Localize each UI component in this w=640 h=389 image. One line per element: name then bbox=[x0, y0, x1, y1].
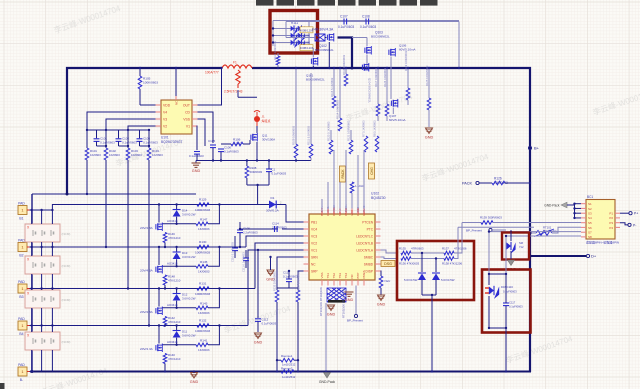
pin U102 TS4 (bottom) bbox=[344, 273, 348, 286]
thermistor RT101 (pack) bbox=[534, 229, 554, 237]
wire BP_Present bbox=[492, 229, 506, 231]
wire C113 top bbox=[288, 271, 290, 279]
ground (C112) bbox=[254, 333, 263, 344]
pin U102 PB1 bbox=[304, 220, 318, 224]
junction tap 42,247 bbox=[40, 246, 42, 248]
svg-text:47R/0603: 47R/0603 bbox=[411, 247, 424, 251]
resistor Rsense2 bbox=[281, 370, 294, 374]
label C114 bbox=[272, 222, 287, 230]
wire pad B- bbox=[30, 371, 35, 373]
svg-text:(NCM): (NCM) bbox=[62, 264, 71, 268]
svg-text:3.6V/0.2W: 3.6V/0.2W bbox=[182, 255, 196, 259]
ground (balancer bottom) bbox=[190, 373, 199, 384]
wire cell G3 bottom x42 bbox=[41, 308, 43, 326]
svg-text:D1: D1 bbox=[271, 196, 275, 200]
junction F4B bus bbox=[351, 67, 354, 70]
svg-text:R147: R147 bbox=[200, 218, 208, 222]
wire TVS row 3 bbox=[273, 42, 309, 44]
junction D+ branch bbox=[528, 254, 531, 257]
svg-text:F4B-30V/4.3A: F4B-30V/4.3A bbox=[312, 28, 334, 32]
junction R105 bus bbox=[139, 67, 141, 69]
pin U102 TS1 (bottom) bbox=[326, 273, 330, 286]
wire C103 bottom link bbox=[140, 145, 150, 147]
svg-text:AO3415: AO3415 bbox=[167, 303, 178, 307]
node B+ bbox=[528, 146, 531, 149]
wire D12 top bbox=[176, 289, 178, 294]
svg-text:S7: S7 bbox=[588, 231, 592, 235]
highlight box (ESD diode) bbox=[502, 233, 529, 260]
pin U102 LEDCNTLA bbox=[356, 248, 380, 252]
svg-text:3.6V/0.2W: 3.6V/0.2W bbox=[182, 213, 196, 217]
svg-text:P1: P1 bbox=[609, 212, 613, 216]
wire D14 top bbox=[176, 205, 178, 210]
wire U102 top pin NC bbox=[339, 182, 341, 209]
svg-text:1K/0603: 1K/0603 bbox=[198, 227, 210, 231]
junction RC rail x106 bbox=[105, 129, 107, 131]
terminal BP_Present bbox=[489, 228, 492, 231]
svg-text:VC4: VC4 bbox=[311, 227, 317, 231]
svg-text:Rsense2: Rsense2 bbox=[281, 366, 293, 370]
wire cell G4 top x42 bbox=[41, 326, 43, 333]
capacitor C108 bbox=[366, 19, 369, 25]
svg-text:NsU: NsU bbox=[385, 279, 391, 283]
pin U102 PTC bbox=[367, 227, 381, 231]
junction C109 row2 bbox=[239, 246, 241, 248]
label R146 bbox=[168, 232, 181, 240]
resistor R7 bbox=[364, 136, 368, 152]
svg-text:R125 100R/0603: R125 100R/0603 bbox=[425, 65, 429, 86]
svg-text:PAD: PAD bbox=[18, 317, 25, 321]
wire B+ top bus right of fuse F1 bbox=[252, 68, 530, 372]
svg-text:R143: R143 bbox=[200, 302, 208, 306]
wire box2 mid col b bbox=[488, 296, 490, 328]
resistor R114 bbox=[338, 118, 342, 131]
TVS diode D15 bbox=[506, 242, 515, 254]
svg-text:100R/0603: 100R/0603 bbox=[195, 292, 210, 296]
svg-text:CD: CD bbox=[185, 110, 190, 114]
svg-text:VC3: VC3 bbox=[311, 234, 317, 238]
wire U102 top pin CHG bbox=[327, 182, 329, 209]
resistor R109 bbox=[294, 144, 298, 158]
wire gnd drop bbox=[195, 161, 197, 164]
junction R131 right bbox=[218, 287, 220, 289]
wire TVS row 2 bbox=[273, 35, 309, 37]
svg-text:20V/4.3A: 20V/4.3A bbox=[140, 269, 154, 273]
svg-text:R114 10M/0603: R114 10M/0603 bbox=[336, 100, 340, 119]
label C102 bbox=[122, 137, 137, 145]
svg-text:20V/4.3A: 20V/4.3A bbox=[140, 226, 154, 230]
junction Q2 drain bbox=[158, 246, 160, 248]
svg-text:LEDCNTLA: LEDCNTLA bbox=[356, 248, 374, 252]
svg-text:GND: GND bbox=[254, 340, 263, 344]
svg-text:R109 10M/0603: R109 10M/0603 bbox=[292, 125, 296, 145]
svg-text:R138 47K/1206: R138 47K/1206 bbox=[442, 262, 462, 266]
wire cell tap row 1 bbox=[32, 209, 53, 211]
pin U101 CD bbox=[185, 110, 197, 114]
svg-text:GND: GND bbox=[327, 312, 336, 316]
wire box2 bottom rail bbox=[489, 327, 506, 329]
wire cell G1 bottom x42 bbox=[41, 242, 43, 247]
wire Q106 column bbox=[390, 57, 392, 100]
resistor R130 (inline) bbox=[197, 245, 209, 249]
wire U101 VSS bbox=[198, 119, 206, 146]
wire R104 top bbox=[148, 130, 150, 148]
svg-text:BC1: BC1 bbox=[587, 195, 593, 199]
junction Q102 bus bbox=[328, 67, 330, 69]
wire R119 bottom bbox=[407, 100, 409, 105]
svg-text:SMBC: SMBC bbox=[364, 255, 374, 259]
junction R115 bus bbox=[333, 67, 335, 69]
wire RT101 right bbox=[552, 227, 581, 233]
svg-text:0.1uF/0603: 0.1uF/0603 bbox=[509, 304, 523, 308]
resistor R123 bbox=[329, 140, 333, 154]
pin BC1 P2 bbox=[609, 216, 620, 220]
wire Q3 drain col bbox=[158, 289, 160, 307]
resistor R110 bbox=[379, 276, 383, 288]
resistor R101 bbox=[85, 148, 89, 160]
pin U101 V2 bbox=[156, 124, 168, 128]
wire S5 net bbox=[462, 222, 481, 224]
svg-text:47K/1210: 47K/1210 bbox=[168, 357, 181, 361]
wire PACK to R126 bbox=[479, 182, 492, 184]
wire sense row bbox=[277, 359, 281, 361]
svg-text:47K/1210: 47K/1210 bbox=[168, 320, 181, 324]
svg-text:BP_Present: BP_Present bbox=[347, 319, 363, 323]
junction C112 top bbox=[257, 249, 259, 251]
resistor R8 bbox=[375, 136, 379, 152]
label C105 bbox=[208, 139, 216, 143]
wire B+ top bus bbox=[67, 68, 222, 194]
wire F4B to Q102 bbox=[325, 37, 327, 39]
wire C107 rail drop right bbox=[458, 22, 460, 69]
wire gate row Q3 up bbox=[208, 289, 219, 308]
wire PRES col bbox=[355, 286, 357, 315]
capacitor C111 bbox=[243, 258, 249, 261]
pin U102 PTCEN bbox=[362, 220, 380, 224]
wire row1 to PB1 bbox=[286, 205, 304, 223]
resistor R104 bbox=[147, 148, 151, 160]
wire U102 top pin PACK bbox=[345, 150, 347, 209]
svg-text:1mΩ/2512: 1mΩ/2512 bbox=[282, 375, 296, 379]
wire gate row Q4 bbox=[162, 344, 196, 346]
net label CHG (vertical) bbox=[369, 163, 375, 179]
label R148 bbox=[168, 275, 181, 283]
transistor Q106 bbox=[389, 48, 395, 57]
wire R126 to bus bbox=[505, 182, 530, 184]
transistor Q101 bbox=[311, 57, 317, 66]
svg-text:PAD: PAD bbox=[18, 280, 25, 284]
resistor R140 bbox=[163, 354, 167, 364]
zener diode D13 bbox=[173, 252, 181, 259]
capacitor C106 bbox=[218, 149, 224, 152]
wire cell G3 top x42 bbox=[41, 289, 43, 291]
svg-text:R116 10M/0603: R116 10M/0603 bbox=[273, 41, 277, 60]
label R140 bbox=[168, 353, 181, 361]
svg-text:R7 5.1K/0603: R7 5.1K/0603 bbox=[362, 120, 366, 137]
junction tap 42,326 bbox=[40, 324, 42, 326]
pin U102 BAT (top) bbox=[320, 209, 324, 217]
pin U102 VC1 bbox=[304, 248, 318, 252]
svg-text:1K/0603: 1K/0603 bbox=[198, 311, 210, 315]
wire R108-C1 bottom rail bbox=[247, 184, 269, 186]
junction box2 br bbox=[505, 327, 507, 329]
label D12 bbox=[182, 293, 196, 301]
junction R114 bus bbox=[339, 67, 341, 69]
svg-text:V1: V1 bbox=[186, 124, 190, 128]
pin U101 V3 bbox=[156, 117, 168, 121]
svg-text:GND: GND bbox=[190, 380, 199, 384]
svg-text:C117: C117 bbox=[509, 301, 516, 305]
wire R114 col bbox=[339, 68, 341, 118]
svg-text:P-: P- bbox=[633, 223, 636, 227]
svg-text:(NCM): (NCM) bbox=[62, 232, 71, 236]
resistor R116 bbox=[276, 56, 280, 65]
transistor Q103 bbox=[365, 46, 371, 55]
label D14 bbox=[182, 209, 196, 217]
wire ZD10 col top bbox=[435, 259, 437, 273]
junction TS bus bbox=[325, 370, 327, 372]
wire C109 top bbox=[239, 222, 241, 230]
wire gate row Q1 bbox=[162, 223, 196, 225]
pin U102 NC bbox=[304, 262, 317, 266]
IC U102 body bbox=[309, 214, 375, 280]
resistor R111b bbox=[309, 144, 313, 158]
junction R129 right bbox=[218, 203, 220, 205]
wire C102 bottom stub bbox=[118, 141, 120, 146]
junction R101 B- rail bbox=[86, 193, 88, 195]
junction R125 bus bbox=[428, 67, 430, 69]
junction gnd rail c106 bbox=[220, 159, 222, 161]
resistor R121 bbox=[349, 140, 353, 154]
wire cell G1 bottom x32 bbox=[31, 242, 33, 247]
wire pad B4 bbox=[30, 325, 35, 327]
pin U101 OUT bbox=[183, 103, 198, 107]
svg-text:C105: C105 bbox=[208, 139, 216, 143]
battery cell group G3 bbox=[25, 290, 70, 308]
wire C113 bottom bbox=[288, 282, 290, 288]
svg-text:47R/1206: 47R/1206 bbox=[454, 247, 467, 251]
label R103 bbox=[131, 149, 142, 157]
svg-text:F1: F1 bbox=[233, 61, 237, 65]
wire U101 pin V4 to column bbox=[87, 112, 156, 130]
pin BC1 P3 bbox=[609, 221, 620, 225]
junction tap 42,210 bbox=[40, 209, 42, 211]
wire U101 V1 bbox=[196, 126, 199, 150]
pin U102 FUSE (top) bbox=[356, 208, 360, 216]
svg-text:P2: P2 bbox=[609, 216, 613, 220]
label C1 bbox=[272, 168, 287, 176]
title bar fragments (top) bbox=[256, 0, 438, 6]
svg-text:1K/0603: 1K/0603 bbox=[90, 153, 101, 157]
wire VC4 line a bbox=[240, 228, 278, 230]
svg-text:TS3: TS3 bbox=[338, 273, 342, 279]
diode D1 bbox=[269, 201, 276, 209]
wire cell G3 top x32 bbox=[31, 289, 33, 291]
pin U102 NC (top) bbox=[338, 209, 342, 217]
wire smb row2 mid bbox=[411, 258, 444, 260]
net label DSG bbox=[381, 261, 395, 267]
wire RT101 left bbox=[530, 232, 536, 234]
pin U101 VSS bbox=[183, 117, 197, 121]
svg-text:B+: B+ bbox=[534, 146, 540, 151]
TVS diode pair row 1a bbox=[291, 25, 298, 34]
pad P2 (B2) bbox=[18, 238, 30, 257]
label C107 bbox=[340, 15, 348, 19]
svg-text:0.1uF/0603: 0.1uF/0603 bbox=[283, 275, 298, 279]
pin U102 LEDCNTLB bbox=[356, 241, 380, 245]
wire C1 bottom bbox=[268, 172, 270, 185]
junction U101 top pin bus bbox=[175, 67, 177, 69]
svg-text:0.1uF/0603: 0.1uF/0603 bbox=[143, 141, 158, 145]
svg-text:V2: V2 bbox=[163, 124, 167, 128]
wire F4B pin1 bbox=[286, 37, 315, 39]
wire C107 rail drop left bbox=[285, 22, 287, 36]
junction R109 bus bbox=[295, 67, 297, 69]
svg-text:C108: C108 bbox=[362, 15, 370, 19]
pin U102 LEDCNTLC bbox=[356, 234, 380, 238]
pin U102 SMBC bbox=[364, 255, 381, 259]
wire gate row Q1 up bbox=[208, 205, 219, 224]
wire cell G2 top x52 bbox=[51, 247, 53, 256]
label C113 bbox=[283, 271, 298, 279]
TVS diode pair row 2b bbox=[298, 32, 305, 41]
svg-text:R136 47K/0603: R136 47K/0603 bbox=[399, 262, 419, 266]
svg-text:R111 5.1K/0603: R111 5.1K/0603 bbox=[307, 125, 311, 145]
svg-text:VSS: VSS bbox=[183, 117, 191, 121]
wire R125 col bbox=[428, 68, 430, 98]
wire cell G1 top x32 bbox=[31, 210, 33, 224]
svg-text:OUT: OUT bbox=[183, 103, 190, 107]
wire TVS array top rail bbox=[273, 20, 459, 22]
wire cell tap row 3 bbox=[32, 288, 255, 290]
wire ZD9 col top bbox=[421, 253, 423, 272]
junction R119 bus bbox=[407, 67, 409, 69]
pin BC1 S6 bbox=[581, 226, 592, 230]
wire cell G1 bottom x52 bbox=[51, 242, 53, 247]
svg-text:R117 10M/0603: R117 10M/0603 bbox=[374, 68, 378, 87]
label D11 bbox=[182, 330, 196, 338]
svg-text:B2: B2 bbox=[19, 254, 23, 258]
svg-text:1.1KΩ: 1.1KΩ bbox=[355, 184, 364, 188]
wire C109 bottom bbox=[239, 233, 241, 247]
pin U101 VDD bbox=[156, 103, 171, 107]
battery cell group G4 bbox=[25, 332, 70, 350]
wire R101 top bbox=[86, 130, 88, 148]
svg-text:GND: GND bbox=[345, 298, 354, 302]
junction PACK bus bbox=[529, 182, 531, 184]
capacitor C109 bbox=[237, 230, 243, 233]
label Q107 bbox=[389, 114, 406, 122]
svg-text:SRP: SRP bbox=[311, 269, 318, 273]
svg-text:B3: B3 bbox=[19, 295, 23, 299]
terminal PACK bbox=[476, 181, 479, 184]
wire cell G2 bottom x42 bbox=[41, 274, 43, 289]
junction box2 bl bbox=[488, 327, 490, 329]
resistor R124 bbox=[385, 104, 389, 116]
svg-text:LEDCNTLB: LEDCNTLB bbox=[356, 241, 373, 245]
wire TVS array right rail bbox=[308, 22, 310, 46]
junction R132 right bbox=[218, 324, 220, 326]
svg-text:LEDCNTLC: LEDCNTLC bbox=[356, 234, 374, 238]
capacitor C112 bbox=[255, 319, 261, 322]
pin U102 CHG (top) bbox=[326, 209, 330, 217]
transistor Q3 (AO3415) bbox=[156, 307, 162, 316]
resistor R106 bbox=[231, 142, 243, 146]
wire zener bottoms bbox=[421, 280, 423, 295]
ground (top cluster) bbox=[425, 128, 434, 139]
svg-text:0.1uF/0603: 0.1uF/0603 bbox=[100, 141, 115, 145]
svg-text:D+: D+ bbox=[591, 254, 597, 259]
svg-text:R135: R135 bbox=[399, 247, 406, 251]
wire R123 top bbox=[330, 130, 332, 140]
wire sense row b bbox=[294, 359, 298, 361]
svg-text:5.6V/0.5W: 5.6V/0.5W bbox=[404, 278, 418, 282]
terminal P+ bbox=[629, 212, 632, 215]
resistor R146 bbox=[163, 233, 167, 243]
svg-text:R139 300R/0603: R139 300R/0603 bbox=[480, 216, 502, 220]
wire C101 bottom link bbox=[97, 145, 107, 147]
wire cell G1 top x42 bbox=[41, 210, 43, 224]
wire cell tap row 1 jog bbox=[52, 205, 286, 211]
wire R125 bottom bbox=[428, 110, 430, 127]
junction tap 32,288 bbox=[31, 287, 33, 289]
wire Q103 source down bbox=[366, 55, 368, 69]
junction R108 top bbox=[246, 159, 248, 161]
svg-text:20V/4.3A: 20V/4.3A bbox=[140, 347, 154, 351]
wire cell tap row 2 bbox=[32, 246, 246, 248]
wire R106 gate drop bbox=[249, 140, 251, 144]
capacitor C114 bbox=[275, 226, 278, 232]
svg-text:P+: P+ bbox=[634, 212, 638, 216]
capacitor C102 bbox=[116, 139, 122, 142]
wire cell G3 bottom x52 bbox=[51, 308, 53, 326]
svg-text:VSS: VSS bbox=[320, 272, 324, 278]
junction B- rail bottom bbox=[31, 370, 34, 373]
ground GND-Pack (ESD) bbox=[505, 260, 521, 271]
wire VC4 line b bbox=[282, 228, 304, 230]
wire C103 bottom stub bbox=[139, 141, 141, 146]
zener diode D14 bbox=[173, 210, 181, 217]
pad P5 (B-) bbox=[18, 363, 30, 382]
resistor FL1 (red vertical) bbox=[236, 70, 240, 88]
pin U101 NC top bbox=[175, 96, 179, 105]
wire R121 top bbox=[350, 130, 352, 140]
TVS diode D16 (red pins) bbox=[485, 288, 489, 293]
junction tap 52,326 bbox=[51, 324, 53, 326]
svg-text:1K/0603: 1K/0603 bbox=[152, 153, 163, 157]
svg-text:5.1KΩ: 5.1KΩ bbox=[233, 142, 242, 146]
transistor Q1 (AO3415) bbox=[156, 223, 162, 232]
wire TVS row 1 bbox=[273, 28, 309, 30]
wire S7 net bbox=[489, 231, 581, 233]
junction R130 right bbox=[218, 246, 220, 248]
resistor R115 bbox=[332, 96, 336, 108]
junction BC1 S3 bbox=[573, 212, 575, 214]
net label PACK (vertical) bbox=[340, 166, 346, 182]
wire zener bottoms b bbox=[435, 280, 437, 295]
resistor R126 bbox=[492, 181, 505, 185]
wire R102 bottom to cell tap 2 bbox=[105, 160, 107, 247]
transistor Q102 bbox=[327, 33, 333, 42]
wire D14 bottom bbox=[176, 217, 178, 224]
svg-text:712: 712 bbox=[519, 245, 524, 249]
svg-text:GND: GND bbox=[192, 169, 201, 173]
label D13 bbox=[182, 251, 196, 259]
svg-text:VC1: VC1 bbox=[311, 248, 317, 252]
pin BC1 S1 bbox=[581, 202, 592, 206]
solder point J1 (red) bbox=[254, 111, 260, 127]
wire TVS array left rail bbox=[272, 21, 274, 47]
